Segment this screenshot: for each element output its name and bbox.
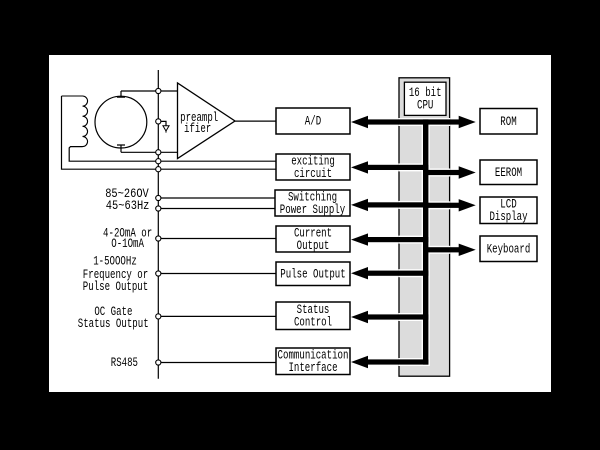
svg-text:Status Output: Status Output xyxy=(78,316,149,331)
svg-text:Pulse Output: Pulse Output xyxy=(83,279,148,294)
CPU bus band xyxy=(399,78,450,376)
signal ground arrow at node xyxy=(161,121,166,125)
white diagram panel xyxy=(49,55,551,392)
bus arrow to Switching Power Supply xyxy=(367,202,428,207)
label RS485 xyxy=(111,355,138,370)
bus arrow to LCD Display xyxy=(423,203,460,208)
bus arrow to Communication Interface xyxy=(367,359,428,364)
block Status Control xyxy=(276,302,350,330)
node junction xyxy=(156,159,161,164)
svg-text:Interface: Interface xyxy=(288,360,337,375)
node junction xyxy=(156,236,161,241)
block Switching Power Supply xyxy=(275,189,350,216)
wire: current output xyxy=(158,238,276,240)
svg-text:Keyboard: Keyboard xyxy=(487,241,531,256)
node junction xyxy=(156,150,161,155)
node junction xyxy=(156,195,161,200)
wire: pulse output xyxy=(158,273,276,275)
svg-text:RS485: RS485 xyxy=(111,355,138,370)
block A/D xyxy=(276,108,350,134)
node junction xyxy=(156,88,161,93)
block LCD Display xyxy=(480,197,537,224)
preamplifier label xyxy=(180,110,218,136)
excitation coil L1 xyxy=(62,96,88,147)
block Pulse Output xyxy=(276,262,350,286)
block 16 bit CPU xyxy=(404,82,446,115)
white halo for bus arrow xyxy=(422,169,451,177)
block Keyboard xyxy=(480,236,537,262)
coil bottom lead to exciting circuit wire xyxy=(69,147,276,162)
wire: preamp output to A/D xyxy=(235,120,276,122)
svg-text:CPU: CPU xyxy=(417,98,433,113)
op-amp preamplifier xyxy=(178,83,236,159)
block ROM xyxy=(480,109,537,135)
outer loop wire to exciting circuit xyxy=(62,96,277,169)
label mains supply xyxy=(105,186,149,213)
bottom electrode xyxy=(117,145,125,152)
svg-text:45~63Hz: 45~63Hz xyxy=(106,198,150,213)
wire: bottom electrode to preamp - input xyxy=(121,151,178,153)
white halo for bus arrow xyxy=(398,313,430,321)
node line (signal common vertical) xyxy=(157,70,159,379)
svg-text:Output: Output xyxy=(297,238,330,253)
bus arrow to EEROM xyxy=(423,170,460,175)
white halo for bus arrow xyxy=(422,201,451,209)
white halo for bus arrow xyxy=(422,246,451,254)
wire: mains input 1 xyxy=(158,197,276,199)
white halo for bus arrow xyxy=(398,201,430,209)
block Communication Interface xyxy=(276,348,350,375)
CPU bus vertical thick line xyxy=(423,119,428,364)
white halo for bus arrow xyxy=(398,118,450,126)
node junction xyxy=(156,360,161,365)
node junction xyxy=(156,314,161,319)
node junction xyxy=(156,206,161,211)
label current output xyxy=(103,226,152,252)
white halo for bus arrow xyxy=(398,358,430,366)
bus arrow to Current Output xyxy=(367,237,428,242)
wire: RS485 xyxy=(158,362,276,364)
svg-text:A/D: A/D xyxy=(305,114,322,129)
wire: mains input 2 xyxy=(158,208,276,210)
wire: status output xyxy=(158,315,276,317)
svg-text:Pulse Output: Pulse Output xyxy=(280,266,345,281)
svg-text:EEROM: EEROM xyxy=(495,165,522,180)
block exciting circuit xyxy=(276,153,350,180)
svg-text:circuit: circuit xyxy=(294,166,332,181)
block Current Output xyxy=(276,225,350,252)
svg-text:O-1OmA: O-1OmA xyxy=(111,236,144,251)
svg-text:ifier: ifier xyxy=(184,121,211,136)
white halo for bus arrow xyxy=(398,163,430,171)
node junction xyxy=(156,119,161,124)
bus arrow to Pulse Output xyxy=(367,271,428,276)
white halo for bus vertical line xyxy=(422,118,430,366)
white halo for bus arrow xyxy=(398,236,430,244)
sensor pipe circle xyxy=(95,96,147,148)
label status output xyxy=(78,304,149,331)
bus arrow to Keyboard xyxy=(423,247,460,252)
block EEROM xyxy=(480,160,537,185)
white halo for bus arrow xyxy=(398,269,430,277)
bus arrow to exciting circuit xyxy=(367,165,428,170)
bus arrow A/D-ROM xyxy=(367,119,460,124)
node junction xyxy=(156,271,161,276)
node junction xyxy=(156,167,161,172)
svg-text:ROM: ROM xyxy=(500,114,516,129)
top electrode xyxy=(117,91,125,97)
svg-text:Display: Display xyxy=(489,209,527,224)
wire: top electrode to preamp + input xyxy=(121,90,178,92)
bus arrow to Status Control xyxy=(367,314,428,319)
label pulse output xyxy=(83,254,148,294)
svg-text:Power Supply: Power Supply xyxy=(280,202,346,217)
svg-text:Control: Control xyxy=(294,315,332,330)
